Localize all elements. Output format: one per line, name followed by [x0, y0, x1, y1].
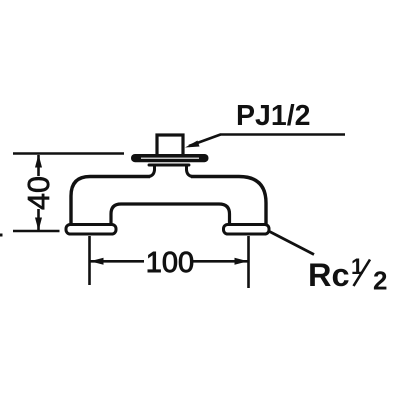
svg-text:40: 40 — [22, 176, 56, 210]
dim 40 line lower segment — [37, 209, 40, 230]
body outer outline right — [191, 177, 266, 225]
flange — [131, 154, 209, 162]
dim 40 bottom extension line — [13, 230, 60, 233]
top stub (threaded inlet PJ1/2) — [157, 135, 183, 156]
body inner arch — [111, 204, 230, 224]
dim 40 arrow down — [35, 218, 42, 231]
dim 40 top extension line — [13, 152, 124, 155]
label Rc1/2 leader — [270, 232, 315, 255]
left foot flange — [66, 225, 116, 235]
dim 40 arrow up — [35, 154, 42, 167]
right foot flange — [224, 225, 270, 235]
dim 100 arrow left — [90, 258, 104, 265]
svg-text:Rc: Rc — [308, 257, 350, 293]
body outer outline left — [71, 177, 150, 225]
label PJ1/2 underline — [220, 133, 345, 136]
dim 100 left extension line — [88, 236, 91, 285]
flange boss — [149, 164, 189, 167]
neck right wire — [187, 166, 193, 177]
label Rc1/2 fraction slash — [354, 260, 371, 287]
dim 100 line right segment — [191, 260, 248, 263]
dim 100 right extension line — [247, 236, 250, 288]
label PJ1/2 leader diagonal — [189, 135, 221, 147]
svg-text:PJ1/2: PJ1/2 — [236, 100, 310, 132]
svg-text:100: 100 — [146, 247, 194, 279]
neck left wire — [149, 166, 155, 177]
scan noise speck — [0, 234, 3, 237]
dim 100 line left segment — [91, 260, 145, 263]
flange highlight streak — [141, 157, 199, 159]
dim 40 line upper segment — [37, 155, 40, 176]
label PJ1/2 leader arrowhead — [185, 141, 200, 148]
dim 100 arrow right — [235, 258, 249, 265]
svg-text:2: 2 — [373, 266, 387, 296]
